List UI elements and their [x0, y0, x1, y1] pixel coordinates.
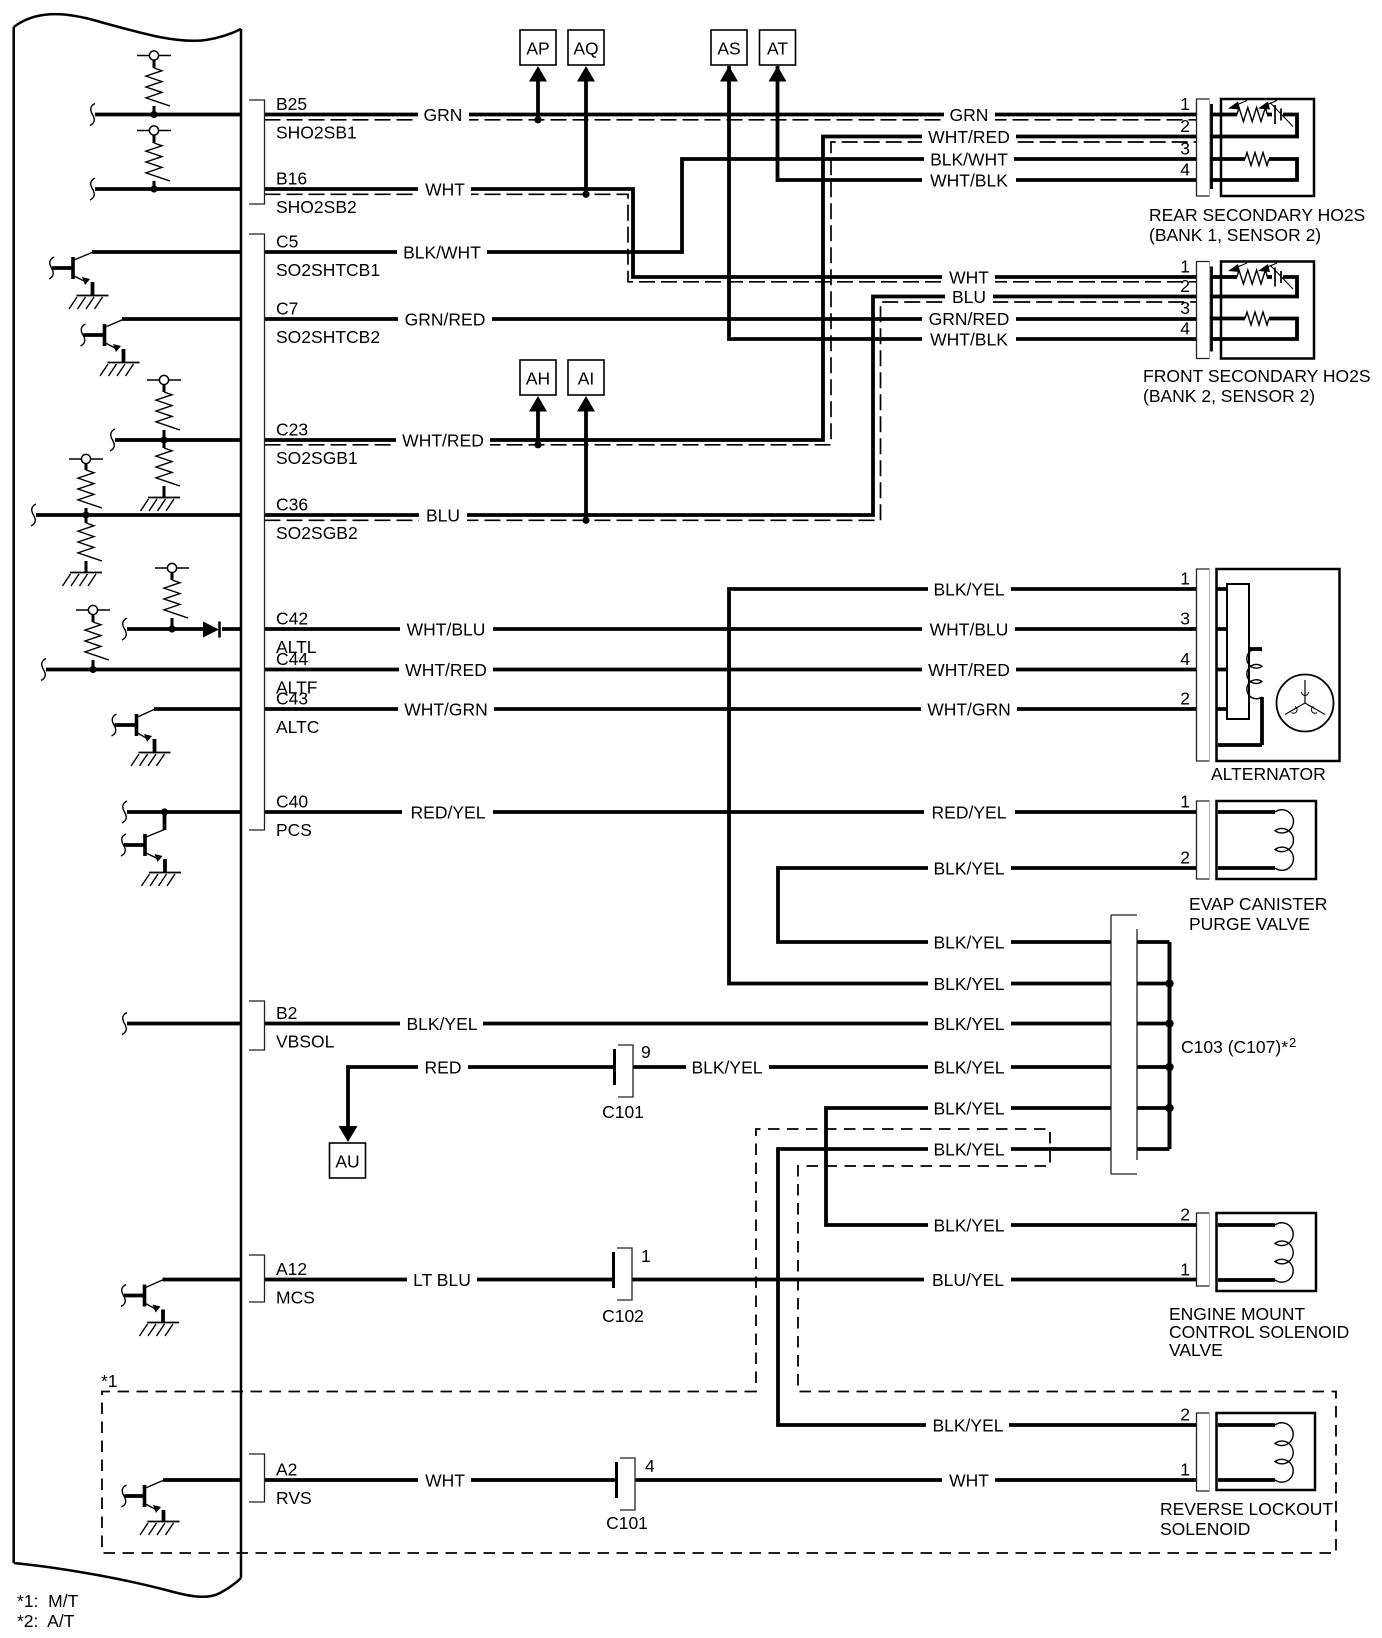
pull-down resistor to ground (SO2SGB2)	[63, 515, 103, 586]
wire label BLK/YEL (x=969, y=983.5)	[928, 974, 1011, 994]
wire C23 WHT/RED to rear HO2S pin 2	[265, 137, 1197, 441]
wire A12 LT BLU to C102	[265, 1278, 613, 1282]
ECM pin label C5/SO2SHTCB1	[276, 232, 380, 281]
inter-sheet connector AI with arrow	[568, 360, 604, 524]
ECM pin label B2/VBSOL	[276, 1003, 335, 1052]
svg-text:GRN: GRN	[424, 105, 463, 125]
svg-text:WHT/RED: WHT/RED	[402, 431, 484, 451]
EVAP solenoid coil	[1218, 810, 1293, 871]
wire C7 internal stub	[122, 317, 240, 321]
wire C5 internal stub	[92, 250, 240, 254]
wire B16 WHT to front HO2S pin 1	[265, 189, 1197, 277]
svg-text:4: 4	[645, 1456, 655, 1476]
EVAP purge valve box	[1217, 801, 1317, 879]
svg-text:2: 2	[1180, 689, 1190, 709]
svg-text:1: 1	[641, 1246, 651, 1266]
ECM pin label C36/SO2SGB2	[276, 495, 358, 544]
wire C43 WHT/GRN to alternator pin 2	[265, 707, 1197, 711]
wire label BLK/YEL (x=969, y=1067)	[928, 1058, 1011, 1078]
ECM pin label A12/MCS	[276, 1259, 315, 1308]
svg-text:C103 (C107)*: C103 (C107)*	[1181, 1037, 1288, 1057]
connector bracket EVAP purge valve	[1197, 801, 1210, 879]
svg-text:BLK/YEL: BLK/YEL	[933, 1216, 1004, 1236]
pin numbers engine mount solenoid	[1180, 1205, 1190, 1280]
svg-text:1: 1	[1180, 569, 1190, 589]
rear secondary HO2S sensor (bank 1, sensor 2)	[1221, 99, 1314, 196]
wire label BLU/YEL (x=968, y=1279.5)	[924, 1270, 1011, 1290]
wire label GRN (left, y=114.5)	[418, 105, 469, 125]
wire stubs into front HO2S	[1210, 277, 1222, 339]
C103 junction bus	[1168, 942, 1172, 1149]
pull-down resistor to ground (SO2SGB1)	[141, 440, 181, 511]
wire from connector AS, WHT/BLK to front HO2S pin 4	[729, 66, 1196, 339]
svg-text:BLK/WHT: BLK/WHT	[930, 150, 1008, 170]
svg-text:C36: C36	[276, 495, 308, 515]
pin numbers rear HO2S	[1180, 94, 1190, 180]
svg-text:BLK/YEL: BLK/YEL	[933, 974, 1004, 994]
ECM pin bracket A2	[249, 1454, 265, 1502]
svg-text:GRN: GRN	[950, 105, 989, 125]
svg-text:A2: A2	[276, 1460, 297, 1480]
pull-up resistor (ALTL)	[155, 563, 189, 629]
svg-text:BLK/YEL: BLK/YEL	[933, 1058, 1004, 1078]
ECM connector-C pin bracket (C5..C40)	[249, 234, 265, 830]
reverse lockout solenoid coil	[1218, 1423, 1293, 1482]
wire C42 internal stub with hook	[122, 618, 240, 640]
alternator field coil	[1218, 649, 1262, 745]
transistor driver (ALTC)	[112, 710, 171, 767]
pull-up resistor (SHO2SB2 line)	[137, 126, 171, 189]
wire label RED (left, y=1067)	[418, 1058, 468, 1078]
svg-text:B2: B2	[276, 1003, 297, 1023]
svg-text:C42: C42	[276, 609, 308, 629]
svg-text:BLK/YEL: BLK/YEL	[933, 933, 1004, 953]
wire label WHT/RED (left, y=440)	[396, 431, 490, 451]
C103 wire stubs to junction bus	[1137, 942, 1170, 1149]
wire C23 internal stub	[110, 429, 240, 451]
in-line connector C101 (pin 4)	[606, 1456, 655, 1533]
svg-text:2: 2	[1180, 848, 1190, 868]
caption alternator	[1211, 764, 1326, 784]
wire label WHT/BLK (x=969, y=339)	[922, 330, 1016, 350]
svg-text:RVS: RVS	[276, 1488, 312, 1508]
svg-text:WHT/BLK: WHT/BLK	[930, 330, 1008, 350]
engine mount solenoid coil	[1218, 1223, 1293, 1282]
svg-text:B16: B16	[276, 169, 307, 189]
inter-sheet connector AS with arrow	[711, 30, 747, 82]
svg-text:WHT/GRN: WHT/GRN	[404, 700, 488, 720]
svg-text:GRN/RED: GRN/RED	[929, 309, 1010, 329]
wire label WHT (x=969, y=277)	[942, 268, 995, 288]
wire BLK/YEL from EVAP pin 2 down to C103	[778, 868, 1196, 942]
in-line connector C101 (pin 9)	[602, 1042, 651, 1122]
svg-text:1: 1	[1180, 94, 1190, 114]
svg-text:2: 2	[1180, 1405, 1190, 1425]
svg-text:3: 3	[1180, 139, 1190, 159]
wire label GRN/RED (x=969, y=318.5)	[922, 309, 1016, 329]
wire BLK/YEL from C101 pin 9 to C103	[633, 1065, 1111, 1069]
ECM pin label A2/RVS	[276, 1460, 312, 1509]
wire label BLK/YEL (x=968, y=1425)	[926, 1416, 1009, 1436]
connector bracket alternator	[1197, 569, 1210, 761]
ECM pin label C43/ALTC	[276, 689, 319, 738]
svg-text:C101: C101	[606, 1513, 648, 1533]
wire B25 internal stub	[90, 104, 240, 126]
pull-up resistor (SO2SGB2)	[69, 454, 103, 515]
inter-sheet connector AU (arrow pointing in)	[330, 1143, 366, 1178]
pin numbers front HO2S	[1180, 257, 1190, 339]
reverse lockout solenoid box	[1217, 1413, 1316, 1490]
diode on ALTL line	[203, 622, 220, 638]
svg-text:C102: C102	[602, 1306, 644, 1326]
connector bracket rear HO2S	[1197, 99, 1212, 196]
caption front HO2S	[1143, 366, 1371, 406]
wire label BLK/YEL (left, y=1023.5)	[400, 1014, 483, 1034]
svg-text:(BANK 1, SENSOR 2): (BANK 1, SENSOR 2)	[1149, 225, 1321, 245]
svg-text:1: 1	[1180, 1260, 1190, 1280]
wire label GRN/RED (left, y=319)	[398, 310, 492, 330]
wire label BLK/WHT (left, y=252)	[397, 243, 487, 263]
svg-text:1: 1	[1180, 792, 1190, 812]
inter-sheet connector AP with arrow	[520, 30, 556, 123]
svg-text:C5: C5	[276, 232, 298, 252]
svg-text:WHT: WHT	[949, 1471, 989, 1491]
svg-text:ALTC: ALTC	[276, 717, 319, 737]
connector bracket front HO2S	[1197, 262, 1212, 359]
svg-text:C43: C43	[276, 689, 308, 709]
svg-text:FRONT SECONDARY HO2S: FRONT SECONDARY HO2S	[1143, 366, 1371, 386]
ECM pin bracket A12	[249, 1255, 265, 1302]
wire BLK/YEL feed to alternator pin 1 and C103	[729, 589, 1196, 984]
svg-text:WHT/BLU: WHT/BLU	[407, 620, 486, 640]
svg-text:RED/YEL: RED/YEL	[932, 803, 1007, 823]
ECM pin label B16/SHO2SB2	[276, 169, 357, 218]
wire label WHT (x=969, y=1480)	[942, 1471, 995, 1491]
svg-text:BLK/YEL: BLK/YEL	[933, 580, 1004, 600]
svg-text:WHT: WHT	[949, 268, 989, 288]
svg-text:REAR SECONDARY HO2S: REAR SECONDARY HO2S	[1149, 205, 1365, 225]
wire B2 internal stub	[122, 1013, 240, 1035]
svg-text:SHO2SB2: SHO2SB2	[276, 197, 357, 217]
wire label WHT/GRN (x=969, y=709)	[921, 700, 1017, 720]
svg-text:AS: AS	[717, 39, 740, 59]
ECM connector-B pin bracket (B25,B16)	[249, 100, 265, 204]
svg-text:1: 1	[1180, 257, 1190, 277]
wire C40 internal stub	[122, 801, 240, 823]
svg-text:4: 4	[1180, 319, 1190, 339]
svg-text:C7: C7	[276, 299, 298, 319]
wire label WHT/GRN (left, y=709)	[398, 700, 494, 720]
svg-text:B25: B25	[276, 94, 307, 114]
wire label WHT/RED (left, y=669.5)	[399, 660, 493, 680]
footnote *1 M/T	[17, 1591, 79, 1611]
junction node on bus (row 1108)	[1165, 1104, 1173, 1112]
label *1 on option box	[101, 1371, 118, 1391]
svg-text:AU: AU	[335, 1152, 359, 1172]
wire label GRN (x=969, y=114.5)	[944, 105, 995, 125]
wire C40 RED/YEL to EVAP purge valve pin 1	[265, 810, 1197, 814]
ECM pin label B25/SHO2SB1	[276, 94, 357, 143]
wire BLK/YEL from C103 to engine mount solenoid pin 2	[826, 1108, 1196, 1225]
svg-text:RED/YEL: RED/YEL	[411, 803, 486, 823]
svg-text:PURGE VALVE: PURGE VALVE	[1189, 914, 1310, 934]
svg-text:*1: M/T: *1: M/T	[17, 1591, 79, 1611]
transistor driver (SO2SHTCB2)	[81, 320, 140, 377]
wire label BLK/YEL (x=969, y=589)	[928, 580, 1011, 600]
svg-text:9: 9	[641, 1042, 651, 1062]
shield dashed line for WHT	[265, 194, 1197, 281]
svg-text:*2: A/T: *2: A/T	[17, 1611, 75, 1631]
wire label BLU (left, y=515)	[419, 506, 467, 526]
svg-text:(BANK 2, SENSOR 2): (BANK 2, SENSOR 2)	[1143, 386, 1315, 406]
svg-text:AP: AP	[526, 39, 549, 59]
transistor driver (RVS)	[122, 1481, 180, 1536]
caption EVAP	[1189, 894, 1327, 934]
wire C44 WHT/RED to alternator pin 4	[265, 668, 1197, 672]
wire label WHT/BLU (x=969, y=629)	[922, 620, 1015, 640]
transistor driver (PCS) with collector stem	[121, 812, 181, 886]
wire label WHT (left, y=1480)	[418, 1471, 471, 1491]
junction node B25/resistor	[150, 111, 157, 118]
svg-text:C40: C40	[276, 792, 308, 812]
svg-text:WHT/RED: WHT/RED	[405, 660, 487, 680]
ECM pin label C44/ALTF	[276, 649, 318, 698]
junction node on bus (row 1023)	[1165, 1019, 1173, 1027]
wire label BLK/YEL (x=969, y=942)	[928, 933, 1011, 953]
wire label BLK/YEL (x=969, y=1149)	[928, 1140, 1011, 1160]
svg-text:C23: C23	[276, 420, 308, 440]
svg-text:WHT/GRN: WHT/GRN	[927, 700, 1011, 720]
svg-text:ENGINE MOUNT: ENGINE MOUNT	[1169, 1304, 1305, 1324]
wire label BLK/YEL (x=969, y=1225)	[928, 1216, 1011, 1236]
svg-text:EVAP CANISTER: EVAP CANISTER	[1189, 894, 1327, 914]
wire stubs into rear HO2S	[1210, 115, 1222, 181]
svg-text:AH: AH	[526, 369, 550, 389]
svg-text:VALVE: VALVE	[1169, 1340, 1223, 1360]
wire label BLK/YEL (x=727, y=1067)	[686, 1058, 769, 1078]
wire WHT from C101 pin 4 to reverse lockout solenoid pin 1	[635, 1478, 1196, 1482]
ECM pin label C40/PCS	[276, 792, 312, 841]
wire label WHT/BLU (left, y=629)	[400, 620, 493, 640]
wire B25 GRN to rear HO2S pin 1	[265, 113, 1197, 117]
transistor driver (SO2SHTCB1)	[49, 253, 109, 310]
svg-text:A12: A12	[276, 1259, 307, 1279]
caption reverse lockout solenoid	[1160, 1499, 1333, 1539]
svg-text:MCS: MCS	[276, 1288, 315, 1308]
wire C36 internal stub	[31, 504, 240, 526]
svg-text:1: 1	[1180, 1460, 1190, 1480]
svg-text:PCS: PCS	[276, 820, 312, 840]
svg-text:WHT/BLK: WHT/BLK	[930, 171, 1008, 191]
svg-text:BLK/YEL: BLK/YEL	[406, 1014, 477, 1034]
svg-text:SHO2SB1: SHO2SB1	[276, 123, 357, 143]
wire A2 internal stub	[163, 1478, 240, 1482]
inter-sheet connector AT with arrow	[760, 30, 796, 82]
connector bracket engine mount solenoid	[1197, 1213, 1210, 1286]
svg-text:SO2SGB2: SO2SGB2	[276, 523, 358, 543]
svg-text:4: 4	[1180, 649, 1190, 669]
dashed option boundary *1 (M/T only circuit)	[102, 1129, 1336, 1553]
front secondary HO2S sensor (bank 2, sensor 2)	[1221, 262, 1314, 359]
svg-text:BLK/YEL: BLK/YEL	[932, 1416, 1003, 1436]
svg-text:WHT/BLU: WHT/BLU	[930, 620, 1009, 640]
wire C36 BLU to front HO2S pin 2	[265, 297, 1197, 516]
arrowhead into AU	[339, 1126, 358, 1142]
svg-text:BLK/YEL: BLK/YEL	[691, 1058, 762, 1078]
wire BLK/YEL from C103 to reverse lockout solenoid pin 2	[778, 1149, 1196, 1425]
ECM pin label C23/SO2SGB1	[276, 420, 358, 469]
shield dashed line for BLU	[265, 302, 1197, 520]
transistor driver (MCS)	[121, 1280, 179, 1336]
label C103 (C107)*2	[1181, 1035, 1296, 1057]
ECM pin bracket B2	[249, 1001, 265, 1050]
caption engine mount solenoid	[1169, 1304, 1349, 1360]
svg-text:*1: *1	[101, 1371, 118, 1391]
svg-text:RED: RED	[425, 1058, 462, 1078]
junction node C40/transistor	[161, 808, 168, 815]
svg-text:LT BLU: LT BLU	[413, 1270, 471, 1290]
svg-text:2: 2	[1180, 116, 1190, 136]
svg-text:3: 3	[1180, 609, 1190, 629]
svg-text:2: 2	[1289, 1035, 1296, 1050]
wire label BLK/YEL (x=969, y=868)	[928, 859, 1011, 879]
svg-text:BLU/YEL: BLU/YEL	[932, 1270, 1004, 1290]
pull-up resistor (SO2SGB1)	[147, 375, 181, 440]
svg-text:WHT: WHT	[425, 1471, 465, 1491]
svg-text:AI: AI	[578, 369, 595, 389]
wire C7 GRN/RED to front HO2S pin 3	[265, 317, 1197, 321]
junction node on bus (row 983)	[1165, 979, 1173, 987]
svg-text:2: 2	[1180, 1205, 1190, 1225]
wire C44 internal stub	[41, 659, 240, 681]
wire label WHT/RED (x=969, y=136.5)	[922, 127, 1016, 147]
svg-text:GRN/RED: GRN/RED	[405, 310, 486, 330]
inter-sheet connector AH with arrow	[520, 360, 556, 448]
wire label LT BLU (left, y=1279.5)	[407, 1270, 477, 1290]
svg-text:3: 3	[1180, 298, 1190, 318]
junction node B16/resistor	[150, 185, 157, 192]
wire RED from B+ to C101 and AU	[348, 1067, 613, 1126]
wire label BLU (x=969, y=296.5)	[945, 287, 993, 307]
junction node C44/resistor	[89, 666, 96, 673]
wire C42 WHT/BLU to alternator pin 3	[265, 627, 1197, 631]
svg-text:CONTROL SOLENOID: CONTROL SOLENOID	[1169, 1322, 1349, 1342]
in-line connector C102 (pin 1)	[602, 1246, 651, 1326]
alternator stator (3-phase)	[1277, 675, 1334, 732]
svg-text:2: 2	[1180, 276, 1190, 296]
wire label BLK/YEL (x=969, y=1023.5)	[928, 1014, 1011, 1034]
inter-sheet connector AQ with arrow	[568, 30, 604, 198]
engine mount solenoid box	[1217, 1213, 1317, 1291]
wire B2 BLK/YEL to C103	[265, 1022, 1112, 1026]
wire label BLK/WHT (x=969, y=159)	[924, 150, 1014, 170]
wire label WHT (left, y=189)	[418, 180, 471, 200]
svg-text:WHT/RED: WHT/RED	[928, 127, 1010, 147]
shield dashed line for WHT/RED	[265, 142, 1197, 445]
svg-text:BLK/YEL: BLK/YEL	[933, 1140, 1004, 1160]
svg-text:WHT: WHT	[425, 180, 465, 200]
ECM/PCM boundary (torn box)	[14, 14, 241, 1597]
footnote *2 A/T	[17, 1611, 75, 1631]
svg-text:AT: AT	[767, 39, 788, 59]
junction node C42/resistor	[168, 625, 175, 632]
svg-text:SO2SGB1: SO2SGB1	[276, 448, 358, 468]
pull-up resistor (SHO2SB1 line)	[137, 51, 171, 115]
in-line junction connector C103 (C107)	[1111, 915, 1137, 1174]
junction node C36/resistors	[82, 511, 89, 518]
caption rear HO2S	[1149, 205, 1365, 245]
ECM pin label C7/SO2SHTCB2	[276, 299, 380, 348]
wire from connector AT, WHT/BLK to rear HO2S pin 4	[778, 66, 1197, 180]
svg-text:ALTERNATOR: ALTERNATOR	[1211, 764, 1326, 784]
wire label WHT/RED (x=969, y=669.5)	[922, 660, 1016, 680]
pull-up resistor (ALTF)	[76, 605, 110, 669]
wire BLU/YEL from C102 pin 1 to engine mount solenoid pin 1	[632, 1278, 1196, 1282]
wire A12 internal stub	[163, 1278, 241, 1282]
wire label WHT/BLK (x=969, y=180)	[922, 171, 1016, 191]
wire A2 WHT to C101	[265, 1478, 616, 1482]
pin numbers EVAP	[1180, 792, 1190, 868]
pin numbers reverse lockout solenoid	[1180, 1405, 1190, 1480]
svg-text:BLU: BLU	[952, 287, 986, 307]
shield dashed line for GRN	[265, 119, 1197, 121]
wire label RED/YEL (left, y=812)	[402, 803, 493, 823]
wire C43 internal stub	[154, 707, 240, 711]
svg-text:BLK/YEL: BLK/YEL	[933, 1014, 1004, 1034]
svg-text:C101: C101	[602, 1102, 644, 1122]
wire label BLK/YEL (x=969, y=1108)	[928, 1099, 1011, 1119]
svg-text:SOLENOID: SOLENOID	[1160, 1519, 1250, 1539]
svg-text:SO2SHTCB1: SO2SHTCB1	[276, 260, 380, 280]
svg-text:4: 4	[1180, 160, 1190, 180]
ECM pin label C42/ALTL	[276, 609, 317, 658]
svg-text:BLK/WHT: BLK/WHT	[403, 243, 481, 263]
svg-text:WHT/RED: WHT/RED	[928, 660, 1010, 680]
wire C5 BLK/WHT to rear HO2S pin 3	[265, 159, 1197, 252]
junction node on bus (row 1067)	[1165, 1063, 1173, 1071]
junction node C23/resistors	[160, 436, 167, 443]
wire B16 internal stub	[90, 178, 240, 200]
connector bracket reverse lockout solenoid	[1197, 1413, 1210, 1491]
svg-text:REVERSE LOCKOUT: REVERSE LOCKOUT	[1160, 1499, 1333, 1519]
pin numbers alternator	[1180, 569, 1190, 709]
svg-text:SO2SHTCB2: SO2SHTCB2	[276, 327, 380, 347]
alternator wire stubs	[1217, 589, 1229, 709]
svg-text:AQ: AQ	[573, 39, 598, 59]
svg-text:BLU: BLU	[426, 506, 460, 526]
alternator box	[1217, 569, 1340, 761]
svg-text:BLK/YEL: BLK/YEL	[933, 859, 1004, 879]
wire label RED/YEL (x=969, y=812)	[924, 803, 1015, 823]
svg-text:BLK/YEL: BLK/YEL	[933, 1099, 1004, 1119]
svg-text:C44: C44	[276, 649, 308, 669]
alternator regulator block	[1227, 584, 1249, 719]
svg-text:VBSOL: VBSOL	[276, 1032, 335, 1052]
